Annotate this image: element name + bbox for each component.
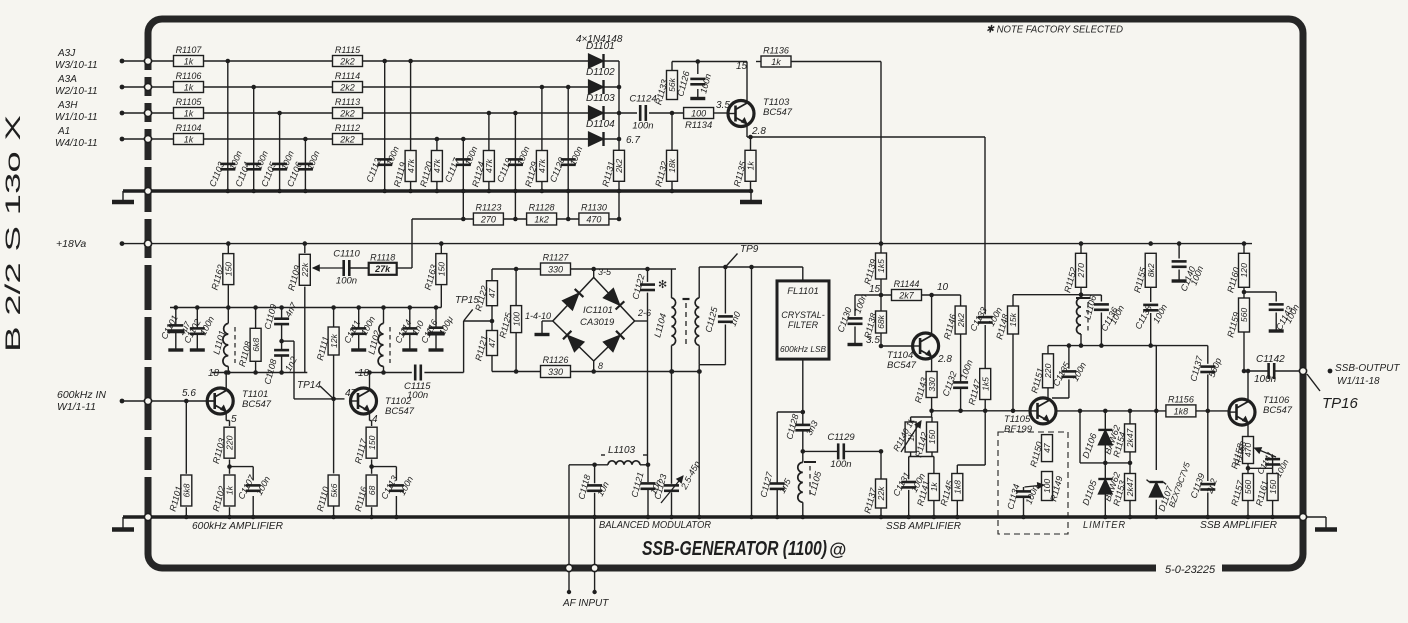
svg-text:A3A: A3A: [57, 74, 77, 85]
svg-text:W1/11-18: W1/11-18: [1337, 376, 1380, 387]
svg-text:1k: 1k: [771, 57, 781, 67]
svg-text:1k: 1k: [184, 56, 194, 66]
svg-text:LIMITER: LIMITER: [1083, 519, 1126, 531]
svg-text:R1144: R1144: [894, 279, 920, 289]
svg-text:100n: 100n: [830, 459, 851, 470]
svg-text:2k2: 2k2: [339, 56, 355, 66]
svg-text:5: 5: [231, 414, 237, 425]
svg-text:W2/10-11: W2/10-11: [55, 86, 98, 97]
svg-text:100n: 100n: [1254, 374, 1277, 385]
svg-text:22k: 22k: [876, 486, 886, 502]
svg-text:TP14: TP14: [297, 380, 321, 391]
svg-text:R1106: R1106: [176, 71, 202, 81]
svg-text:R1134: R1134: [685, 120, 712, 131]
svg-text:100: 100: [691, 108, 706, 118]
svg-text:2-6: 2-6: [637, 308, 651, 318]
svg-text:R1112: R1112: [335, 123, 360, 133]
svg-text:5-0-23225: 5-0-23225: [1165, 564, 1216, 576]
svg-text:BC547: BC547: [242, 399, 272, 410]
svg-text:600kHz AMPLIFIER: 600kHz AMPLIFIER: [192, 520, 283, 532]
svg-text:1k8: 1k8: [1174, 406, 1189, 416]
svg-text:✱ NOTE FACTORY SELECTED: ✱ NOTE FACTORY SELECTED: [986, 24, 1123, 36]
svg-text:FL1101: FL1101: [787, 286, 819, 297]
svg-text:10: 10: [937, 282, 949, 293]
svg-text:W4/10-11: W4/10-11: [55, 138, 98, 149]
svg-text:IC1101: IC1101: [583, 305, 613, 316]
svg-text:+18Va: +18Va: [56, 238, 86, 250]
svg-text:R1114: R1114: [335, 71, 360, 81]
svg-text:2.8: 2.8: [751, 126, 766, 137]
svg-text:R1156: R1156: [1168, 394, 1194, 404]
svg-text:BC547: BC547: [887, 360, 917, 371]
svg-text:15k: 15k: [1008, 312, 1018, 327]
svg-text:3-5: 3-5: [598, 267, 612, 277]
svg-text:R1118: R1118: [370, 252, 395, 262]
svg-text:8: 8: [598, 361, 603, 371]
svg-text:C1142: C1142: [1256, 354, 1285, 365]
svg-text:✻: ✻: [658, 279, 667, 291]
svg-text:W3/10-11: W3/10-11: [55, 60, 98, 71]
svg-text:R1115: R1115: [335, 45, 361, 55]
svg-text:D1102: D1102: [586, 67, 615, 78]
svg-text:@: @: [829, 540, 846, 560]
svg-text:R1113: R1113: [335, 97, 360, 107]
svg-text:600kHz LSB: 600kHz LSB: [780, 344, 827, 354]
svg-text:4: 4: [372, 414, 378, 425]
svg-text:470: 470: [586, 214, 601, 224]
svg-text:A3H: A3H: [57, 100, 78, 111]
svg-text:SSB-OUTPUT: SSB-OUTPUT: [1335, 363, 1400, 374]
svg-text:SSB AMPLIFIER: SSB AMPLIFIER: [886, 520, 961, 532]
svg-text:6.7: 6.7: [626, 135, 640, 146]
svg-text:330: 330: [548, 367, 563, 377]
svg-text:3.5: 3.5: [866, 335, 880, 346]
svg-text:R1126: R1126: [543, 355, 569, 365]
svg-text:1k: 1k: [184, 82, 194, 92]
svg-text:R1136: R1136: [763, 46, 789, 56]
svg-text:2.8: 2.8: [937, 354, 952, 365]
svg-text:A3J: A3J: [57, 48, 76, 59]
svg-text:270: 270: [480, 214, 496, 224]
svg-text:W1/1-11: W1/1-11: [57, 401, 96, 413]
svg-text:2k2: 2k2: [339, 108, 355, 118]
svg-text:12k: 12k: [329, 333, 339, 348]
svg-text:R1107: R1107: [176, 45, 203, 55]
svg-text:AF INPUT: AF INPUT: [562, 598, 609, 609]
svg-text:R1130: R1130: [581, 203, 607, 213]
svg-text:C1110: C1110: [333, 249, 360, 260]
svg-text:SSB-GENERATOR (1100): SSB-GENERATOR (1100): [642, 537, 827, 560]
svg-text:R1123: R1123: [475, 203, 501, 213]
svg-text:1k2: 1k2: [534, 214, 549, 224]
svg-text:BC547: BC547: [763, 107, 793, 118]
svg-text:330: 330: [548, 264, 563, 274]
svg-text:5.6: 5.6: [182, 388, 196, 399]
svg-text:18: 18: [208, 368, 220, 379]
svg-text:D1103: D1103: [586, 93, 615, 104]
svg-text:100n: 100n: [632, 121, 653, 132]
svg-text:CA3019: CA3019: [580, 317, 615, 328]
svg-text:27k: 27k: [374, 264, 391, 274]
svg-text:FILTER: FILTER: [788, 320, 819, 330]
svg-text:2k47: 2k47: [1125, 476, 1135, 497]
svg-text:B 2/2 S 13o X: B 2/2 S 13o X: [2, 115, 25, 352]
svg-text:TP9: TP9: [740, 244, 759, 255]
svg-text:100n: 100n: [336, 276, 357, 287]
svg-text:15: 15: [736, 61, 748, 72]
svg-text:18: 18: [358, 368, 370, 379]
svg-text:BALANCED MODULATOR: BALANCED MODULATOR: [599, 519, 711, 531]
svg-text:R1128: R1128: [529, 203, 555, 213]
svg-text:W1/10-11: W1/10-11: [55, 112, 98, 123]
svg-text:TP16: TP16: [1322, 395, 1359, 412]
svg-text:R1105: R1105: [176, 97, 203, 107]
svg-text:1k: 1k: [184, 108, 194, 118]
svg-text:1k: 1k: [184, 134, 194, 144]
svg-text:SSB AMPLIFIER: SSB AMPLIFIER: [1200, 519, 1277, 531]
svg-text:2k2: 2k2: [339, 82, 355, 92]
svg-text:D1104: D1104: [586, 119, 615, 130]
svg-text:R1127: R1127: [543, 253, 570, 263]
svg-text:2k2: 2k2: [339, 134, 355, 144]
svg-text:2k2: 2k2: [956, 313, 966, 328]
svg-text:600kHz IN: 600kHz IN: [57, 389, 106, 401]
svg-text:R1104: R1104: [176, 123, 202, 133]
svg-text:1-4-10: 1-4-10: [525, 311, 551, 321]
svg-text:2k7: 2k7: [898, 290, 915, 300]
svg-text:BC547: BC547: [385, 406, 415, 417]
svg-text:BF199: BF199: [1004, 424, 1033, 435]
svg-text:C1129: C1129: [827, 432, 855, 443]
svg-text:4×1N4148: 4×1N4148: [576, 34, 623, 45]
svg-text:L1103: L1103: [608, 445, 636, 456]
svg-text:15: 15: [869, 284, 881, 295]
svg-text:2k47: 2k47: [1125, 427, 1135, 448]
svg-text:A1: A1: [57, 126, 70, 137]
svg-text:CRYSTAL-: CRYSTAL-: [781, 310, 825, 320]
svg-text:BC547: BC547: [1263, 405, 1293, 416]
